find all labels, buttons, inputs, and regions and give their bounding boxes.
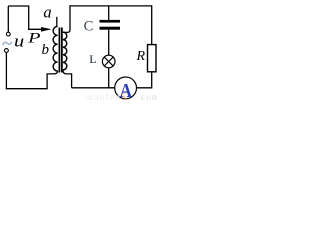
wire right vertical lower xyxy=(151,72,153,88)
lamp L cross line 1 xyxy=(104,57,113,66)
wire right vertical upper xyxy=(151,5,153,44)
wire bottom right horizontal xyxy=(136,87,152,89)
wire vertical down to tap lead xyxy=(28,5,30,29)
lamp bottom lead xyxy=(108,68,110,88)
wire bottom middle horizontal xyxy=(72,87,115,89)
wire top horizontal of right loop xyxy=(69,5,151,7)
transformer primary winding xyxy=(53,26,58,71)
svg-text:u: u xyxy=(14,32,24,51)
svg-text:manfen5.: manfen5. xyxy=(86,92,131,102)
svg-text:C: C xyxy=(84,19,94,35)
AC source bottom terminal xyxy=(5,49,9,53)
wire up to primary bottom lead xyxy=(46,74,48,89)
ammeter A circle xyxy=(115,77,137,99)
wire bottom-left horizontal xyxy=(6,88,47,90)
lamp L circle xyxy=(102,55,115,68)
wire tap horizontal xyxy=(28,28,45,30)
label tilde of source xyxy=(3,42,13,46)
wire from source bottom terminal down xyxy=(5,52,7,88)
transformer secondary winding xyxy=(63,32,67,70)
svg-text:R: R xyxy=(136,49,146,64)
wire left vertical from source top terminal xyxy=(7,6,9,32)
transformer secondary bottom lead xyxy=(63,70,72,88)
transformer core line 1 xyxy=(58,28,60,73)
slider arrow P head xyxy=(41,27,52,32)
lamp L cross line 2 xyxy=(104,57,113,66)
capacitor C top plate xyxy=(100,20,121,23)
capacitor C bottom plate xyxy=(100,27,121,30)
capacitor bottom lead to lamp xyxy=(108,30,110,56)
resistor R box xyxy=(148,45,157,72)
wire primary bottom lead horizontal xyxy=(47,71,58,74)
transformer primary top lead a xyxy=(56,17,58,27)
svg-text:L: L xyxy=(89,52,96,66)
svg-text:com: com xyxy=(141,93,157,102)
capacitor C top lead xyxy=(108,6,110,20)
svg-text:a: a xyxy=(43,3,51,22)
transformer secondary top lead xyxy=(63,6,70,33)
transformer core line 2 xyxy=(61,28,63,73)
svg-text:P: P xyxy=(27,29,41,46)
svg-text:b: b xyxy=(42,42,50,58)
wire top-left horizontal xyxy=(8,5,28,7)
AC source top terminal xyxy=(6,32,10,36)
